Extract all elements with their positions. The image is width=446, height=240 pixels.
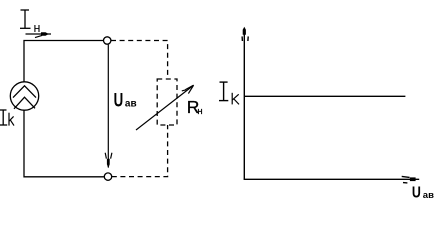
wire dashed bottom-right [112,125,168,177]
wire left-bottom [24,110,104,177]
current direction arrow Iн [26,32,52,37]
svg-text:ав: ав [423,190,434,201]
graph axis Y [242,27,248,180]
label R_н [187,97,203,117]
graph line Ik [245,95,406,97]
svg-text:U: U [412,185,421,202]
wire top [24,41,103,83]
label U_ав (circuit) [114,90,137,111]
label I_н [20,10,31,29]
label I_k (source) [0,110,7,125]
label U_ав (graph) [412,185,434,202]
svg-text:U: U [114,90,124,111]
resistor R_н [157,79,177,125]
current source I1 [10,82,38,110]
label I_k (graph) [219,82,228,101]
graph axis X [244,176,420,183]
svg-text:н: н [197,106,202,117]
node b (bottom terminal) [104,173,111,180]
svg-text:н: н [34,21,41,35]
svg-text:ав: ав [125,98,137,109]
wire dashed top-right [111,41,168,80]
voltage arrow Uав [105,45,112,169]
node a (top terminal) [104,37,111,44]
